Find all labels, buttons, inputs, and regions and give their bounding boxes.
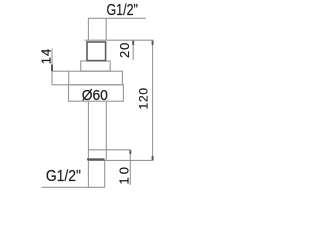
svg-text:G1/2": G1/2" [46,167,81,185]
svg-text:20: 20 [117,42,132,58]
svg-text:Ø60: Ø60 [82,87,108,103]
svg-text:G1/2": G1/2" [106,2,137,20]
svg-text:14: 14 [38,48,53,64]
svg-text:10: 10 [117,164,132,184]
svg-text:120: 120 [137,87,151,109]
